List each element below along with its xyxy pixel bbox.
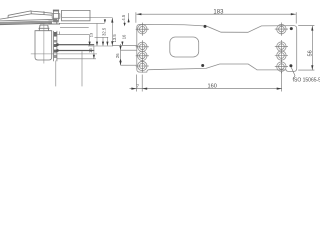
arrowhead down x103: [102, 42, 104, 46]
arrowhead down x104.9 under y23.3 line: [104, 19, 106, 23]
lower arm attachment: [48, 21, 60, 25]
arrowhead down x124.6 (4.5): [124, 23, 126, 26]
hole L1: [138, 25, 147, 34]
arrowhead 56 up: [311, 26, 313, 31]
arrowhead down x120.5 at 65.2: [119, 61, 121, 65]
dim line x103: [102, 37, 104, 45]
arrowhead 56 down: [311, 65, 313, 70]
ext line y46: [88, 45, 113, 47]
dim line x112.3: [111, 18, 113, 46]
ext line y27.4: [60, 26, 89, 28]
arrowhead 160 right (points right): [277, 88, 282, 90]
lower arm bar: [0, 21, 52, 23]
arrowhead down x122.4 at 45.3: [121, 42, 123, 46]
dim line x120.5: [120, 44, 122, 65]
svg-text:13.5: 13.5: [112, 34, 117, 43]
svg-text:32.5: 32.5: [102, 27, 107, 36]
arrowhead down x93.9 (16 dim): [93, 55, 95, 59]
ext line left x135.9: [135, 12, 137, 22]
svg-text:16: 16: [88, 48, 93, 53]
pivot flange box: [52, 14, 60, 19]
stud tip dot 1: [56, 43, 59, 46]
ext vline x82 below stud: [81, 51, 83, 86]
dim line x107.4: [106, 37, 108, 45]
stud bar 2: [58, 50, 95, 51]
crosshair L1: [136, 23, 149, 36]
ext line from shoe bottom: [62, 17, 112, 19]
ext line right x296.2: [295, 12, 297, 23]
hole L4: [138, 61, 147, 70]
crosshair L2/L3: [136, 40, 149, 62]
arm bottom edge extension left: [0, 18, 8, 19]
ext line y45.6: [113, 45, 137, 47]
crosshair R2/R3: [275, 40, 288, 62]
pivot spindle cylinder: [54, 10, 59, 21]
centerline ext right: [60, 53, 97, 55]
dim line x312.3: [311, 26, 313, 70]
arrowhead up x120.5 at 58.8: [119, 59, 121, 62]
pivot bottom blob: [53, 20, 59, 23]
short dim vline x122.4: [121, 41, 123, 45]
dim line x97: [96, 23, 98, 45]
arrowhead down x120.5 at 50: [119, 46, 121, 50]
ext vline x55.8 below body: [55, 61, 57, 87]
slide rail upper lines: [0, 19, 57, 21]
svg-text:26: 26: [115, 53, 120, 58]
stud bar 1: [58, 44, 95, 45]
ext line x281.7: [281, 72, 283, 92]
strip bottom ext to right: [57, 58, 96, 60]
crosshair R1: [275, 23, 288, 36]
svg-text:7: 7: [137, 84, 140, 89]
svg-text:183: 183: [213, 10, 224, 16]
leader to ISO text: [291, 67, 295, 79]
pin dot top middle: [204, 25, 207, 28]
short line above arrow x124.6: [124, 21, 126, 23]
body top cap: [39, 25, 50, 31]
svg-text:ISO 15065-5: ISO 15065-5: [293, 78, 320, 84]
hole R1: [277, 24, 286, 33]
ext line x136.4: [135, 75, 137, 92]
arrowhead 7 right / 160 left (points left): [142, 88, 147, 90]
svg-text:13: 13: [88, 32, 93, 37]
dim line 160: [130, 88, 282, 90]
ext line y65.2: [121, 64, 137, 66]
ext line bottom y70.1: [298, 69, 314, 71]
plate outline: [137, 24, 297, 72]
arrowhead 7 left (points right): [131, 88, 136, 90]
pin dot bottom middle: [201, 64, 204, 67]
holes: [138, 24, 286, 71]
hole R4: [277, 62, 286, 71]
arrowhead up x128.6: [128, 18, 130, 22]
arrowhead down x112.3: [111, 41, 113, 46]
crosshair R4: [275, 60, 288, 73]
arrowhead down x107.4: [106, 42, 108, 46]
ext line top y25.6: [298, 25, 314, 27]
ext line y23.3: [59, 22, 105, 24]
strip hatch dark: [54, 32, 57, 37]
hole L2: [138, 42, 147, 51]
hole R2: [277, 42, 286, 51]
mount plate strip edge-on: [53, 31, 57, 61]
body vertical centerline: [43, 23, 45, 63]
ext line x142.2: [141, 75, 143, 92]
ext line y50.15: [121, 49, 137, 51]
arrowhead down x97: [96, 42, 98, 46]
arrowhead down x89.6: [89, 42, 91, 46]
closer body outline: [35, 31, 52, 60]
arrowhead up x112.3: [111, 18, 113, 23]
svg-text:56: 56: [307, 50, 313, 56]
ext line y34.6: [55, 32, 90, 35]
middle cutout rounded rect: [170, 37, 199, 57]
body horizontal centerline: [31, 53, 61, 55]
stud tip dot 2: [56, 49, 59, 52]
hole L3: [138, 51, 147, 60]
arm link to pivot: [44, 12, 52, 15]
arm link middle: [31, 11, 44, 15]
dim line x128.6: [128, 13, 130, 23]
dim line x89.6: [89, 35, 91, 46]
svg-text:4.5: 4.5: [121, 14, 126, 20]
dim line 183: [136, 13, 295, 15]
crosshair L4: [136, 59, 149, 72]
arrowhead 183 left: [136, 13, 141, 15]
pin dot top right: [290, 27, 293, 30]
svg-text:16: 16: [121, 34, 126, 39]
arm A1 main lever (side view, top-left): [8, 11, 31, 18]
arm shoe block: [62, 10, 91, 20]
hole R3: [277, 51, 286, 60]
pivot top cap: [53, 10, 59, 12]
ext line y37.3: [95, 36, 109, 38]
dim 16 line x93.9: [93, 46, 95, 59]
svg-text:160: 160: [208, 84, 217, 90]
arrowhead 183 right: [291, 13, 296, 15]
pin dot bottom right: [289, 64, 292, 67]
